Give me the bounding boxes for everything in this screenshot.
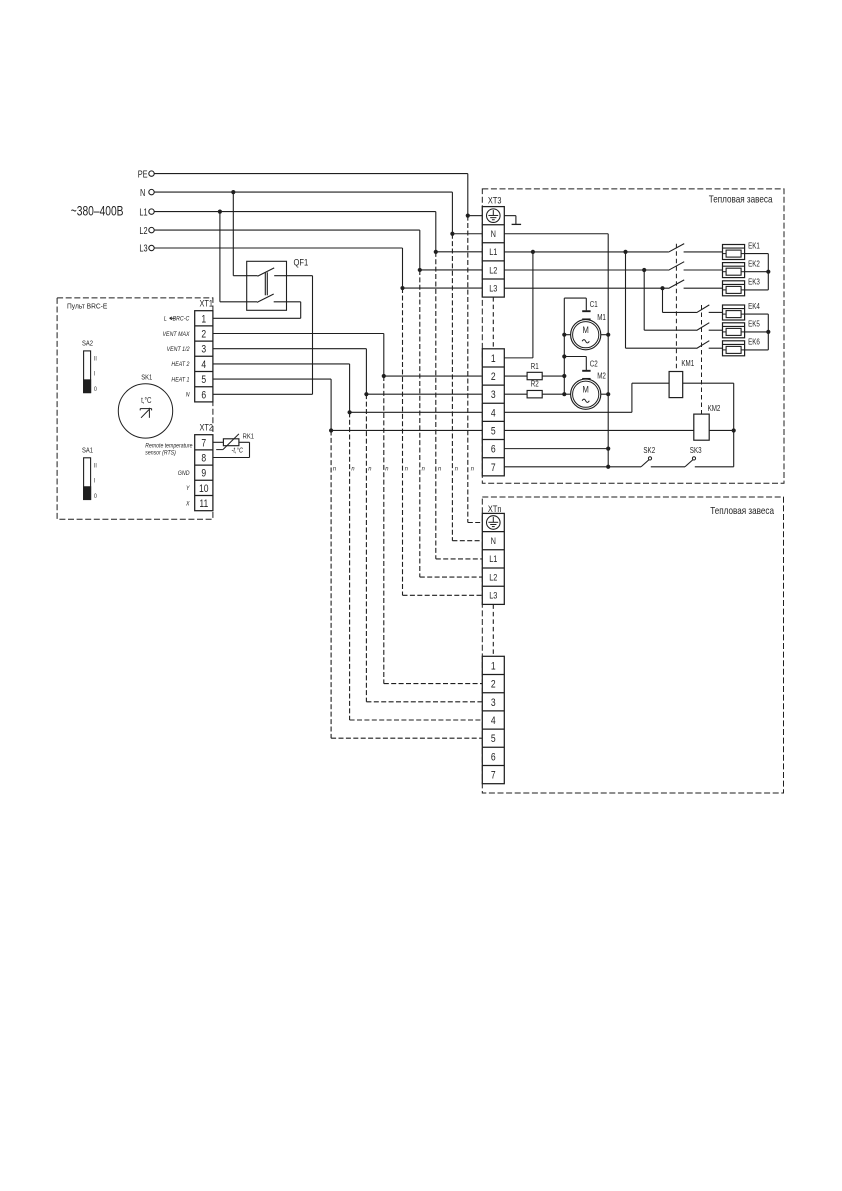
ground (chassis, right of XT3 PE) bbox=[504, 216, 521, 225]
wire SK2 to SK3 bbox=[651, 466, 685, 468]
labels n (unit-n dashed wires) bbox=[333, 465, 474, 473]
svg-text:n: n bbox=[455, 465, 459, 473]
wire QF1 pole2 output to XT1 pin 1 bbox=[213, 302, 301, 319]
capacitor C2 bbox=[582, 371, 590, 379]
switch SA1 (heat selector) bbox=[82, 447, 97, 500]
wire L2 dashed continuation to XTn bbox=[420, 270, 483, 577]
svg-text:3: 3 bbox=[201, 344, 206, 356]
terminal block XT1 (panel, pins 1-6) bbox=[195, 299, 214, 402]
label Пульт BRC-E bbox=[67, 303, 108, 310]
wire XT1 pin 5 to XT3 pin 5 bbox=[213, 379, 482, 430]
wire XT3 pin 2 to R1 bbox=[504, 375, 527, 377]
svg-text:N: N bbox=[491, 535, 496, 546]
svg-text:7: 7 bbox=[491, 462, 496, 474]
svg-text:KM1: KM1 bbox=[681, 360, 694, 369]
svg-text:n: n bbox=[351, 465, 355, 473]
node L1 feed junction bbox=[434, 250, 438, 254]
wire M2 right lead bbox=[601, 393, 608, 395]
contact KM1.3 (to EK3) bbox=[668, 280, 722, 289]
node KM1/KM2 return junction bbox=[732, 428, 736, 432]
label Remote temperature sensor (RTS) bbox=[145, 443, 192, 456]
svg-text:3: 3 bbox=[491, 389, 496, 401]
contact KM2.2 (to EK5) bbox=[697, 323, 723, 331]
node M2 right junction bbox=[606, 392, 610, 396]
svg-text:SA2: SA2 bbox=[82, 340, 93, 348]
svg-text:R1: R1 bbox=[531, 363, 539, 372]
svg-text:XT2: XT2 bbox=[200, 423, 214, 433]
svg-text:GND: GND bbox=[178, 471, 190, 478]
wire motor left bus bbox=[563, 298, 565, 394]
heater EK2 bbox=[723, 263, 745, 278]
heater EK4 bbox=[723, 305, 745, 320]
terminal block XTn (N L1 L2 L3 + PE) bbox=[482, 505, 504, 605]
wire dashed to XTn pin 3 bbox=[366, 394, 482, 702]
wire L2 row (XT3 L2 to KM1 contact 2) bbox=[504, 269, 668, 271]
input terminal L3 bbox=[139, 243, 154, 254]
svg-text:KM2: KM2 bbox=[708, 405, 721, 414]
PE terminal earth symbol (XTn) bbox=[487, 516, 501, 530]
thermal switch SK3 bbox=[685, 447, 702, 466]
wire EK4 to star bus bbox=[745, 313, 769, 315]
wire dashed to XTn pin 2 bbox=[384, 376, 483, 684]
label RK1 bbox=[243, 433, 255, 441]
label R1 bbox=[531, 363, 539, 372]
svg-text:N: N bbox=[186, 392, 190, 399]
svg-text:Пульт BRC-E: Пульт BRC-E bbox=[67, 303, 108, 310]
node PE feed junction bbox=[466, 214, 470, 218]
wire M1 right lead bbox=[601, 334, 608, 336]
label Тепловая завеса (box 1) bbox=[709, 194, 773, 205]
svg-text:1: 1 bbox=[201, 313, 206, 325]
wire RK1 to XT2 pin 8 bbox=[213, 442, 250, 457]
svg-text:7: 7 bbox=[491, 770, 496, 782]
svg-text:EK6: EK6 bbox=[748, 338, 760, 347]
input terminal N bbox=[140, 187, 154, 198]
input terminal PE bbox=[138, 168, 154, 179]
label KM2 bbox=[708, 405, 721, 414]
terminal block XTn (pins 1-7) bbox=[482, 656, 504, 783]
svg-text:N: N bbox=[491, 228, 496, 239]
label EK5 bbox=[748, 320, 760, 329]
terminal strip centerline XTn (dashed) bbox=[492, 604, 494, 656]
labels XT1 pin functions bbox=[163, 316, 191, 399]
svg-text:2: 2 bbox=[201, 329, 206, 341]
input terminal L2 bbox=[139, 225, 154, 236]
contact KM2.3 (to EK6) bbox=[697, 341, 723, 349]
wire EK2 to star bus bbox=[745, 271, 769, 273]
node star point EK1-3 bbox=[766, 270, 770, 274]
svg-text:7: 7 bbox=[201, 437, 206, 449]
svg-text:4: 4 bbox=[491, 715, 496, 727]
enclosure box 2 Тепловая завеса (dashed) bbox=[482, 497, 783, 793]
wire KM2 coil to right bus bbox=[709, 429, 734, 431]
wire EK3 to star bus bbox=[745, 289, 769, 291]
terminal strip centerline XT3 (dashed) bbox=[492, 297, 494, 349]
svg-text:6: 6 bbox=[491, 444, 496, 456]
wire EK6 to star bus bbox=[745, 349, 769, 351]
input terminal L1 bbox=[139, 206, 154, 217]
svg-text:L1: L1 bbox=[489, 246, 498, 257]
wire EK1 to star bus bbox=[745, 253, 769, 255]
wire XT3 pin 1 to L1 row bbox=[504, 252, 533, 358]
label EK1 bbox=[748, 242, 760, 251]
svg-text:Тепловая завеса: Тепловая завеса bbox=[709, 194, 773, 205]
svg-text:L2: L2 bbox=[489, 572, 498, 583]
label KM1 bbox=[681, 360, 694, 369]
svg-text:VENT MAX: VENT MAX bbox=[163, 331, 191, 338]
svg-text:XT3: XT3 bbox=[488, 196, 502, 206]
wire XT3 pin 5 to KM2 coil bbox=[504, 429, 694, 431]
node junction on XT3 pin 4 wire bbox=[348, 410, 352, 414]
wire M1 left lead bbox=[564, 334, 570, 336]
svg-text:n: n bbox=[405, 465, 409, 473]
svg-text:2: 2 bbox=[491, 679, 496, 691]
svg-text:SA1: SA1 bbox=[82, 447, 93, 455]
wire XT3 pin 4 to KM1 coil bbox=[504, 383, 669, 412]
wire star bus EK4-EK6 bbox=[767, 314, 769, 350]
wire XT2 pin 7 to RK1 bbox=[213, 441, 224, 443]
thermostat SK1 (panel, round) bbox=[118, 374, 172, 438]
wire L1 tap down to QF1 pole 2 bbox=[220, 212, 257, 302]
label EK6 bbox=[748, 338, 760, 347]
wire XT1 pin 2 to XT3 pin 2 bbox=[213, 334, 482, 377]
label R2 bbox=[531, 380, 539, 389]
svg-text:5: 5 bbox=[201, 374, 206, 386]
resistor R2 bbox=[527, 390, 542, 397]
label QF1 bbox=[294, 256, 309, 267]
node pin6/N bus junction bbox=[606, 447, 610, 451]
node L1/EK6 branch bbox=[623, 250, 627, 254]
wire L2 branch to KM2 contact 2 (EK5) bbox=[644, 270, 696, 330]
svg-text:n: n bbox=[368, 465, 372, 473]
wire dashed to XTn pin 4 bbox=[350, 412, 483, 720]
wire XT3 pin 7 to SK2 bbox=[504, 466, 641, 468]
svg-text:L1: L1 bbox=[139, 206, 147, 217]
circuit breaker QF1 bbox=[247, 261, 287, 310]
linkage KM2 contacts to coil (dashed) bbox=[701, 305, 703, 414]
resistor R1 bbox=[527, 372, 542, 379]
wire L1 branch to KM2 contact 3 (EK6) bbox=[626, 252, 697, 348]
svg-text:Remote temperature: Remote temperature bbox=[145, 443, 192, 449]
svg-text:EK4: EK4 bbox=[748, 302, 760, 311]
node N feed junction bbox=[450, 232, 454, 236]
svg-text:M1: M1 bbox=[597, 313, 606, 322]
terminal block XT3 (pins 1-7) bbox=[482, 349, 504, 476]
label EK2 bbox=[748, 260, 760, 269]
svg-text:QF1: QF1 bbox=[294, 256, 309, 267]
wire L2 feed (horizontal, bend down into XT3 L2) bbox=[154, 230, 482, 270]
svg-text:EK5: EK5 bbox=[748, 320, 760, 329]
svg-text:4: 4 bbox=[491, 407, 496, 419]
svg-text:SK1: SK1 bbox=[141, 374, 152, 382]
svg-text:L3: L3 bbox=[489, 590, 498, 601]
svg-text:Тепловая завеса: Тепловая завеса bbox=[710, 505, 774, 516]
svg-text:C1: C1 bbox=[590, 300, 598, 309]
svg-text:9: 9 bbox=[201, 468, 206, 480]
contact KM2.1 (to EK4) bbox=[697, 305, 723, 313]
contactor coil KM1 bbox=[669, 372, 683, 398]
svg-text:n: n bbox=[422, 465, 426, 473]
svg-text:4: 4 bbox=[201, 359, 206, 371]
wire C1 branch bbox=[564, 298, 586, 310]
svg-text:n: n bbox=[438, 465, 442, 473]
label Тепловая завеса (box 2) bbox=[710, 505, 774, 516]
wire C2 branch bbox=[564, 357, 586, 371]
svg-text:8: 8 bbox=[201, 453, 206, 465]
svg-text:2: 2 bbox=[491, 371, 496, 383]
svg-text:n: n bbox=[471, 465, 475, 473]
node junction on XT3 pin 2 wire bbox=[382, 374, 386, 378]
svg-text:L3: L3 bbox=[139, 243, 147, 254]
motor M2 bbox=[571, 379, 601, 409]
labels XT2 pin functions bbox=[178, 471, 191, 508]
heater EK1 bbox=[723, 245, 745, 260]
capacitor C1 bbox=[582, 311, 590, 319]
svg-text:3: 3 bbox=[491, 697, 496, 709]
svg-text:sensor (RTS): sensor (RTS) bbox=[145, 450, 176, 456]
wire XT1 pin 3 to XT3 pin 3 bbox=[213, 349, 482, 394]
label -t,°C (RK1) bbox=[232, 446, 244, 455]
wire XT3 pin 6 to N bus bbox=[504, 448, 608, 450]
svg-text:SK3: SK3 bbox=[690, 447, 702, 455]
node junction on XT3 pin 5 wire bbox=[329, 428, 333, 432]
svg-text:XT1: XT1 bbox=[200, 299, 214, 309]
wire N tap down to QF1 pole 1 bbox=[233, 192, 257, 276]
svg-text:R2: R2 bbox=[531, 380, 539, 389]
control panel box Пульт BRC-E (dashed) bbox=[57, 298, 213, 519]
wire PE dashed continuation to XTn bbox=[468, 216, 483, 523]
svg-text:L3: L3 bbox=[489, 283, 498, 294]
svg-text:N: N bbox=[140, 187, 145, 198]
node L2/EK5 branch bbox=[642, 268, 646, 272]
svg-text:II: II bbox=[94, 463, 97, 470]
wire star bus EK1-EK3 bbox=[767, 254, 769, 290]
wire R2 to motor bus bbox=[542, 393, 564, 395]
node L2 feed junction bbox=[418, 268, 422, 272]
linkage KM1 contacts to coil (dashed) bbox=[675, 244, 677, 372]
PE terminal earth symbol (XT3) bbox=[487, 209, 501, 223]
svg-text:~380–400В: ~380–400В bbox=[71, 203, 124, 219]
svg-text:HEAT 2: HEAT 2 bbox=[171, 362, 190, 369]
svg-text:L: L bbox=[164, 316, 167, 323]
motor M1 bbox=[571, 320, 601, 350]
node L3 feed junction bbox=[400, 286, 404, 290]
node pin7/N bus junction bbox=[606, 465, 610, 469]
node star point EK4-6 bbox=[766, 330, 770, 334]
wire L3 branch to KM2 contact 1 (EK4) bbox=[663, 288, 697, 312]
svg-text:SK2: SK2 bbox=[643, 447, 655, 455]
wire KM1 coil to right bus bbox=[683, 383, 734, 430]
wire L3 row (XT3 L3 to KM1 contact 3) bbox=[504, 287, 668, 289]
label M1 bbox=[597, 313, 606, 322]
wire QF1 pole1 output to XT1 pin 6 bbox=[213, 276, 313, 395]
svg-text:L2: L2 bbox=[139, 225, 147, 236]
node R1/bus junction bbox=[562, 374, 566, 378]
node L1 tap for QF1 bbox=[218, 210, 222, 214]
svg-text:RK1: RK1 bbox=[243, 433, 255, 441]
node M1 right junction bbox=[606, 333, 610, 337]
wire L3 dashed continuation to XTn bbox=[403, 288, 483, 595]
svg-text:1: 1 bbox=[491, 353, 496, 365]
contact KM1.1 (to EK1) bbox=[668, 244, 722, 253]
enclosure box 1 Тепловая завеса (dashed) bbox=[482, 189, 784, 483]
wire N dashed continuation to XTn bbox=[452, 234, 482, 541]
label M2 bbox=[597, 372, 606, 381]
wire L1 row (XT3 L1 to KM1 contact 1) bbox=[504, 251, 668, 253]
node C2 branch junction bbox=[562, 354, 566, 358]
node N tap for QF1 bbox=[231, 190, 235, 194]
svg-text:6: 6 bbox=[491, 751, 496, 763]
wire dashed to XTn pin 5 bbox=[331, 430, 482, 738]
node M1 left junction bbox=[562, 333, 566, 337]
svg-text:n: n bbox=[333, 465, 337, 473]
wire XT1 pin 4 to XT3 pin 4 bbox=[213, 364, 482, 412]
wire XT3 pin 3 to R2 bbox=[504, 393, 527, 395]
node junction on XT3 pin 3 wire bbox=[364, 392, 368, 396]
svg-text:M2: M2 bbox=[597, 372, 606, 381]
node M2 left junction (R2 + bus) bbox=[562, 392, 566, 396]
svg-text:EK2: EK2 bbox=[748, 260, 760, 269]
node pin1/L1 junction bbox=[531, 250, 535, 254]
wire right bus down to SK3 bbox=[733, 430, 735, 466]
label C1 bbox=[590, 300, 598, 309]
wire PE feed (horizontal, bend down into XT3 PE) bbox=[154, 174, 482, 216]
svg-text:t,°C: t,°C bbox=[141, 397, 151, 406]
thermal switch SK2 bbox=[641, 447, 655, 466]
wire L3 feed (horizontal, bend down into XT3 L3) bbox=[154, 248, 482, 288]
svg-text:5: 5 bbox=[491, 733, 496, 745]
svg-text:1: 1 bbox=[491, 660, 496, 672]
svg-text:10: 10 bbox=[199, 483, 209, 495]
svg-text:L1: L1 bbox=[489, 553, 498, 564]
contact KM1.2 (to EK2) bbox=[668, 262, 722, 271]
contactor coil KM2 bbox=[694, 414, 709, 440]
svg-text:5: 5 bbox=[491, 426, 496, 438]
thermistor RK1 bbox=[216, 434, 239, 450]
heater EK5 bbox=[723, 323, 745, 338]
terminal block XT3 (N L1 L2 L3 + PE) bbox=[482, 196, 504, 297]
svg-text:VENT 1/2: VENT 1/2 bbox=[167, 347, 190, 354]
svg-text:C2: C2 bbox=[590, 360, 598, 369]
wire L1 dashed continuation to XTn bbox=[436, 252, 483, 559]
svg-text:EK3: EK3 bbox=[748, 278, 760, 287]
heater EK3 bbox=[723, 281, 745, 296]
label C2 bbox=[590, 360, 598, 369]
svg-text:-t,°C: -t,°C bbox=[232, 446, 244, 455]
svg-text:II: II bbox=[94, 356, 97, 363]
svg-text:HEAT 1: HEAT 1 bbox=[171, 377, 189, 384]
wire R1 to motor bus bbox=[542, 375, 564, 377]
wire M2 left lead bbox=[564, 393, 570, 395]
svg-text:n: n bbox=[385, 465, 389, 473]
svg-text:11: 11 bbox=[199, 498, 208, 510]
label ~380-400В bbox=[71, 203, 124, 219]
wire EK5 to star bus bbox=[745, 331, 769, 333]
wire N bus (XT3 N to SK2 row) bbox=[504, 234, 608, 467]
node L3/EK4 branch bbox=[660, 286, 664, 290]
label EK3 bbox=[748, 278, 760, 287]
heater EK6 bbox=[723, 341, 745, 356]
wire N feed (horizontal, bend down into XT3 N) bbox=[154, 192, 482, 234]
wire L1 feed (horizontal, bend down into XT3 L1) bbox=[154, 212, 482, 252]
svg-text:PE: PE bbox=[138, 168, 148, 179]
svg-text:M: M bbox=[583, 384, 589, 395]
terminal block XT2 (panel, pins 7-11) bbox=[195, 423, 214, 511]
label EK4 bbox=[748, 302, 760, 311]
svg-text:EK1: EK1 bbox=[748, 242, 760, 251]
svg-text:6: 6 bbox=[201, 389, 206, 401]
svg-text:L2: L2 bbox=[489, 264, 498, 275]
wire SK3 to right bus bbox=[695, 466, 734, 468]
svg-text:BRC-C: BRC-C bbox=[173, 316, 190, 323]
switch SA2 (fan speed selector) bbox=[82, 340, 97, 393]
svg-text:M: M bbox=[583, 324, 589, 335]
